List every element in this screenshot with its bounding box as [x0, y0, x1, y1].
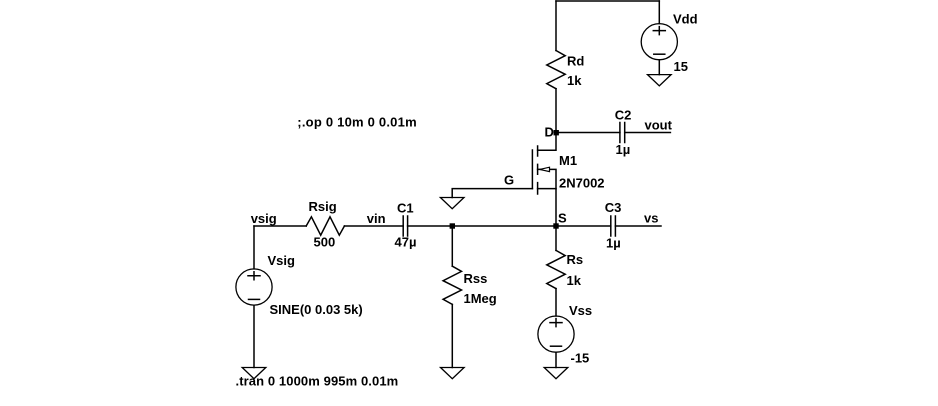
svg-text:vin: vin	[367, 211, 386, 226]
Vdd minus sign	[654, 53, 665, 55]
wire M1 gate lead to ground	[452, 189, 532, 198]
svg-text:Rs: Rs	[567, 252, 584, 267]
wire Rss ground lead	[451, 304, 453, 367]
Vsig minus sign	[249, 298, 260, 300]
svg-text:1Meg: 1Meg	[464, 291, 497, 306]
svg-text:2N7002: 2N7002	[559, 176, 605, 191]
svg-text:.tran 0 1000m 995m 0.01m: .tran 0 1000m 995m 0.01m	[236, 374, 399, 389]
wire Vdd top lead	[658, 1, 660, 24]
svg-text:Vsig: Vsig	[268, 253, 296, 268]
wire Rs to Vss	[555, 289, 557, 316]
Vsig plus sign	[248, 272, 260, 280]
svg-text:S: S	[558, 211, 567, 226]
wire junction to Rss	[451, 226, 453, 266]
wire node S to C3	[556, 225, 611, 227]
wire node S to Rs	[555, 226, 557, 250]
svg-text:;.op 0 10m 0 0.01m: ;.op 0 10m 0 0.01m	[297, 114, 417, 129]
resistor Rss	[443, 266, 461, 304]
wire Rd bottom lead to node D	[555, 89, 557, 133]
capacitor C2 plates	[620, 123, 625, 143]
wire Rd top lead	[555, 1, 557, 51]
svg-text:Rsig: Rsig	[309, 199, 337, 214]
wire M1 body lead	[538, 169, 556, 188]
svg-text:C1: C1	[397, 201, 414, 216]
resistor Rs	[547, 250, 565, 288]
wire C3 to vs	[615, 225, 661, 227]
svg-text:M1: M1	[559, 153, 577, 168]
Vss minus sign	[551, 345, 562, 347]
wire M1 drain lead	[538, 133, 556, 151]
capacitor C1 plates	[403, 216, 407, 236]
resistor Rsig	[306, 217, 344, 235]
ground at gate G	[440, 198, 464, 209]
wire C1 to node S	[408, 225, 556, 227]
svg-text:47µ: 47µ	[395, 235, 417, 250]
wire vsig drop to Vsig	[253, 226, 255, 269]
svg-text:500: 500	[314, 235, 336, 250]
transistor M1 body arrow	[540, 167, 550, 171]
voltage source Vdd circle	[641, 24, 677, 60]
svg-text:1µ: 1µ	[606, 236, 621, 251]
svg-text:Vdd: Vdd	[673, 12, 698, 27]
svg-text:SINE(0 0.03 5k): SINE(0 0.03 5k)	[270, 302, 363, 317]
svg-text:Vss: Vss	[569, 303, 592, 318]
transistor M1 channel dashes	[537, 146, 539, 194]
svg-text:vout: vout	[645, 118, 673, 133]
svg-text:1k: 1k	[567, 73, 582, 88]
wire Vss ground lead	[555, 352, 557, 367]
svg-text:C3: C3	[605, 200, 622, 215]
wire Vdd ground lead	[658, 60, 660, 75]
wire node D to C2	[556, 132, 620, 134]
wire M1 source lead to node S	[538, 189, 556, 226]
svg-text:Rss: Rss	[464, 271, 488, 286]
ground below Vdd	[648, 75, 672, 86]
svg-text:G: G	[504, 173, 514, 188]
node D junction square	[554, 130, 559, 135]
voltage source Vsig circle	[236, 269, 272, 305]
capacitor C3 plates	[611, 216, 616, 236]
svg-text:-15: -15	[571, 351, 590, 366]
ground below Vss	[544, 368, 568, 379]
wire vsig to Rsig	[254, 225, 306, 227]
svg-text:vs: vs	[644, 211, 658, 226]
voltage source Vss circle	[538, 316, 574, 352]
transistor M1 gate bar	[531, 150, 533, 189]
wire C2 to vout	[625, 132, 671, 134]
svg-text:C2: C2	[615, 108, 632, 123]
node vin/Rss junction square	[450, 223, 455, 228]
ground below Rss	[441, 368, 465, 379]
node S junction square	[553, 223, 558, 228]
wire Vsig ground lead	[253, 305, 255, 367]
Vdd plus sign	[653, 27, 665, 35]
svg-text:1k: 1k	[567, 273, 582, 288]
svg-text:1µ: 1µ	[616, 142, 631, 157]
Vss plus sign	[550, 319, 562, 327]
svg-text:D: D	[545, 125, 554, 140]
svg-text:vsig: vsig	[251, 211, 277, 226]
svg-text:15: 15	[674, 59, 688, 74]
wire Rsig to C1 (vin)	[344, 225, 403, 227]
wire top rail	[556, 0, 659, 2]
resistor Rd	[547, 51, 565, 89]
ground below Vsig	[242, 368, 266, 379]
svg-text:Rd: Rd	[567, 54, 584, 69]
